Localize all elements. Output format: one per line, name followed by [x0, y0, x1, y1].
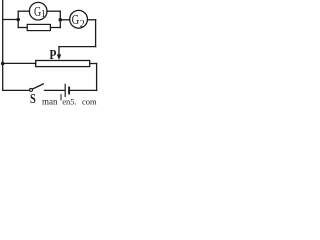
svg-text:P: P [49, 47, 56, 62]
svg-text:1: 1 [41, 9, 46, 20]
svg-text:en5.: en5. [62, 97, 76, 107]
svg-text:S: S [30, 91, 36, 106]
svg-text:man: man [42, 97, 58, 107]
svg-text:2: 2 [80, 19, 85, 30]
svg-text:G: G [72, 13, 80, 28]
svg-text:com: com [82, 97, 97, 107]
